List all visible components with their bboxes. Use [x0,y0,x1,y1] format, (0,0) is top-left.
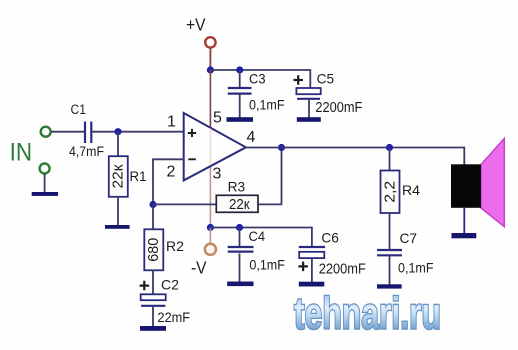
ground (C7) [377,284,402,288]
svg-text:0,1mF: 0,1mF [249,257,285,273]
wire: -V node to terminal (tan) [209,228,211,244]
svg-text:C3: C3 [249,71,266,87]
capacitor C6 polarized [299,246,325,248]
capacitor C3 [228,87,252,89]
svg-text:R3: R3 [228,179,246,195]
wire: rail corner to C6 [311,227,313,247]
wire: -V rail [210,227,312,229]
wire: supply line through op-amp (faint) [209,129,211,166]
ground (C6) [299,282,325,287]
polarity + (C2) [140,281,150,291]
svg-text:2200mF: 2200mF [319,262,366,278]
svg-text:C1: C1 [71,102,87,117]
wire: C4 to ground [239,253,241,282]
svg-text:0,1mF: 0,1mF [249,97,285,113]
node: feedback junction [149,201,156,208]
wire: pin 2 to feedback node [153,159,184,204]
polarity + (C5) [294,75,304,85]
ground (speaker) [452,233,477,238]
ground (C5) [297,117,321,122]
wire: pin3 drop to -V node (tan) [209,166,211,228]
svg-text:4: 4 [247,129,256,146]
svg-text:2200mF: 2200mF [315,100,362,116]
wire: IN terminal to C1 [51,131,84,133]
svg-text:C6: C6 [321,230,339,246]
speaker cone [481,139,504,227]
polarity + (C6) [298,262,308,272]
wire: junction to R1 [117,132,119,157]
svg-text:C2: C2 [161,277,179,293]
svg-text:22к: 22к [111,164,127,189]
svg-text:R1: R1 [130,168,147,184]
terminal -V [205,244,216,255]
wire: output [246,147,465,149]
wire: C6 to ground [311,258,313,282]
wire: rail to C3 [239,70,241,88]
node: C4 branch [236,224,243,231]
watermark tehnari.ru [294,288,441,339]
resistor R2 [144,229,163,270]
svg-text:-V: -V [191,258,207,278]
op-amp inverting input mark - [188,158,196,160]
wire: speaker to ground [463,208,465,234]
svg-text:tehnari.ru: tehnari.ru [294,288,441,339]
capacitor C4 [228,246,254,248]
wire: C5 to ground [308,100,310,118]
wire: C2 to ground [152,307,154,327]
svg-text:3: 3 [213,166,222,183]
ground (C3) [227,117,254,122]
wire: rail corner to C5 [309,69,311,88]
svg-text:C7: C7 [400,230,418,246]
node: -V junction [207,224,214,231]
wire: C7 to ground [389,256,391,284]
svg-text:22к: 22к [229,196,250,213]
svg-text:1: 1 [167,113,176,130]
capacitor C2 polarized [141,294,166,300]
wire: feedback node to R2 [152,205,154,230]
wire: R2 to C2 [152,270,154,294]
svg-text:IN: IN [10,138,32,166]
node: +V rail junction [207,66,214,73]
svg-text:C4: C4 [249,228,266,244]
speaker driver box [451,164,481,208]
input terminal IN bottom [40,164,50,174]
svg-text:C5: C5 [317,71,335,87]
ground (C2) [140,326,166,331]
ground (R1) [105,225,130,229]
op-amp non-inverting input mark + [188,129,196,137]
node: output/feedback [278,144,285,151]
ground (input) [32,192,58,196]
wire: bottom IN terminal to ground [44,174,46,193]
wire: output node to R4 [389,148,391,171]
capacitor C5 polarized [296,88,320,94]
svg-text:5: 5 [213,110,222,127]
svg-text:R4: R4 [402,182,420,198]
ground (C4) [227,282,253,287]
wire: output to speaker [463,148,466,165]
wire: feedback node to R3 [153,203,216,205]
wire: +V terminal to rail (maroon) [209,49,211,71]
terminal +V [205,37,215,47]
svg-text:0,1mF: 0,1mF [398,260,434,276]
node: output/R4 [386,144,393,151]
wire: C1 to op-amp pin 1 [92,131,183,133]
wire: +V rail [210,69,310,71]
wire: R1 to ground [117,197,119,225]
svg-text:2: 2 [167,163,176,180]
svg-text:+V: +V [186,15,206,35]
node: input/R1 junction [114,128,121,135]
wire: rail to C4 [239,228,241,248]
svg-text:2,2: 2,2 [382,181,398,203]
svg-text:22mF: 22mF [158,309,191,325]
op-amp U1 [184,113,246,180]
resistor R1 [109,156,128,197]
input terminal IN top [41,127,51,137]
wire: R4 to C7 [389,213,391,249]
capacitor C7 [377,249,402,251]
svg-text:4,7mF: 4,7mF [69,144,104,159]
svg-text:680: 680 [146,238,162,262]
wire: C3 to ground [239,95,241,119]
svg-text:R2: R2 [166,238,184,254]
node: C3 branch [236,66,243,73]
resistor R4 [381,171,400,214]
capacitor C1 [84,122,86,144]
resistor R3 [216,195,258,212]
wire: pin5 supply drop (maroon) [209,70,211,128]
wire: R3 to output node [258,148,282,205]
